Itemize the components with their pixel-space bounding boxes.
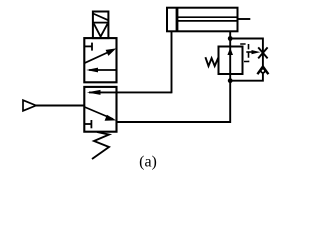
valve position box 2 — [84, 87, 116, 132]
throttle cross stroke 2 — [258, 47, 267, 58]
check valve lower line + wire to bottom junction — [230, 74, 263, 81]
flow arrow left (top box) — [89, 69, 117, 71]
flow arrow diagonal (bottom box) — [84, 107, 113, 119]
piston rod lower — [178, 20, 238, 22]
wire top junction to throttle branch — [230, 39, 263, 68]
junction dot top — [228, 36, 233, 41]
cylinder right port riser — [229, 31, 231, 39]
throttle arrow — [246, 51, 254, 53]
flow arrow left (bottom box) + wire to cylinder — [89, 91, 172, 93]
wire valve to bottom junction — [117, 81, 231, 122]
flow arrow diagonal (top box) — [84, 50, 113, 63]
cylinder left port riser — [171, 31, 173, 94]
solenoid-pilot actuator box — [93, 12, 109, 39]
blocked port T (bottom box) — [84, 123, 91, 125]
spring W — [205, 57, 218, 66]
check valve ball — [261, 69, 265, 73]
junction dot bottom — [228, 78, 233, 83]
throttle cross stroke 1 — [258, 47, 267, 58]
svg-text:(a): (a) — [139, 154, 157, 171]
pressure valve through line — [229, 39, 231, 81]
pressure valve arrow head (up) — [227, 48, 233, 55]
actuator divider — [93, 22, 109, 24]
solenoid diagonal — [93, 14, 108, 21]
cylinder barrel — [167, 8, 238, 32]
pilot dashed line — [240, 44, 248, 62]
return spring — [92, 132, 109, 159]
blocked port T (top box) — [84, 45, 92, 47]
rod end — [238, 18, 251, 20]
pressure valve box — [219, 47, 243, 75]
check valve seat — [257, 67, 268, 75]
wire supply to valve — [36, 105, 84, 107]
piston — [176, 8, 179, 32]
supply triangle — [23, 100, 36, 111]
pilot triangle — [94, 24, 108, 37]
piston rod upper — [178, 16, 238, 18]
valve position box 1 — [84, 38, 116, 82]
